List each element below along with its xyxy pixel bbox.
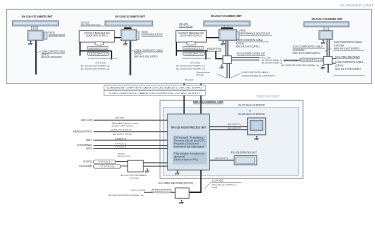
wire junction SU3 out 2 <box>232 59 260 61</box>
svg-text:LMR TRBL: LMR TRBL <box>115 118 125 120</box>
LCD monitor screen <box>250 120 263 130</box>
leader cable text SU2 <box>131 50 134 51</box>
wire junction SU4 out 2 <box>332 62 336 64</box>
svg-text:Ground wire: Ground wire <box>196 71 211 74</box>
svg-text:AC 220/230V 50/60Hz, 1φ: AC 220/230V 50/60Hz, 1φ <box>262 62 283 65</box>
svg-text:inserted as standard: inserted as standard <box>174 146 206 149</box>
svg-text:OPTION: OPTION <box>129 178 139 180</box>
scanner housing SU1 <box>28 30 43 40</box>
svg-text:GPS/TB: GPS/TB <box>118 153 126 155</box>
svg-text:DPYC-1.5S10: DPYC-1.5S10 <box>261 57 272 59</box>
process unit note block 1 <box>173 136 207 149</box>
rotary joint stub SU2 <box>126 25 129 27</box>
scanner housing SU2 <box>121 29 136 40</box>
power cable process to rectifier <box>189 170 201 192</box>
svg-text:ARC LUM: ARC LUM <box>81 119 92 122</box>
svg-text:(CP3-6): (CP3-6) <box>134 53 142 55</box>
svg-text:Process Circuit and DSC: Process Circuit and DSC <box>174 140 206 143</box>
cable A scanner to display <box>183 84 184 115</box>
wire GYRO <box>94 161 128 163</box>
svg-text:Of-board Tracking: Of-board Tracking <box>174 138 205 140</box>
svg-text:DPYC-1.5S10: DPYC-1.5S10 <box>190 62 201 64</box>
performance monitor PM SU3 <box>236 32 239 40</box>
rectifier box <box>175 188 189 198</box>
display unit enclosure <box>160 100 303 178</box>
cable tag 1 SU3 <box>183 46 204 49</box>
svg-text:optional.: optional. <box>174 156 187 159</box>
wire gyro interface out 2 <box>143 165 167 167</box>
wire USB to operation unit <box>210 159 235 161</box>
svg-text:AC 100/110-115V 50/60Hz, 1φ: AC 100/110-115V 50/60Hz, 1φ <box>176 64 205 67</box>
svg-text:0.6/1kV-DPYC-1.5: 0.6/1kV-DPYC-1.5 <box>184 48 202 50</box>
ground gyro interface <box>145 169 149 173</box>
svg-text:ANT SUPPLY OPTION: ANT SUPPLY OPTION <box>118 155 130 158</box>
power control junction box SU3 <box>223 56 232 64</box>
leader cable text SU1 <box>37 51 41 53</box>
svg-text:0.6/1kV-DPYC-1.5: 0.6/1kV-DPYC-1.5 <box>89 48 107 50</box>
wire breaker left drop SU2 <box>79 42 81 56</box>
cable B scanner to display <box>200 84 201 115</box>
svg-text:AD-100 GYRO INTERFACE: AD-100 GYRO INTERFACE <box>121 174 148 177</box>
ground SU3 housing <box>221 42 225 46</box>
antenna radiator SU3 <box>204 21 250 26</box>
ground process unit <box>175 171 179 175</box>
cable label box 2 <box>104 91 205 96</box>
svg-text:S-2M COMPOSITE CABLE 5/10/15/2: S-2M COMPOSITE CABLE 5/10/15/20M-100 ×2C… <box>109 92 202 95</box>
svg-text:(USB OUTPUT 1): (USB OUTPUT 1) <box>215 158 229 160</box>
cable tag rectifier <box>152 189 171 193</box>
scanner housing SU4 <box>319 31 333 40</box>
svg-text:MAX 4/4.5 ANT SUPPLY: MAX 4/4.5 ANT SUPPLY <box>236 45 260 48</box>
radar process unit <box>168 114 210 170</box>
ground monitor <box>255 136 259 140</box>
leader PM SU1 <box>49 35 66 37</box>
wire breaker to housing SU3 <box>206 37 219 39</box>
wire junction SU3 out 1 <box>232 56 260 58</box>
svg-text:DPYC-1.5: DPYC-1.5 <box>209 49 220 51</box>
wire mains to rectifier <box>144 191 175 193</box>
cable tag 2 SU3 <box>183 52 205 55</box>
svg-text:AC 220/230-240V 50/60Hz, 1φ: AC 220/230-240V 50/60Hz, 1φ <box>176 68 205 71</box>
svg-text:PM-50: PM-50 <box>240 31 247 33</box>
wire gyro interface out 1 <box>143 162 167 164</box>
svg-text:(DVI OUTPUT 1): (DVI OUTPUT 1) <box>228 124 241 126</box>
wire breaker to mains SU2 <box>80 51 112 60</box>
performance monitor PM SU1 <box>44 32 47 39</box>
cable slash SU4 <box>325 48 331 51</box>
svg-text:NET: NET <box>86 139 93 142</box>
wire breaker left drop SU3 <box>175 42 177 56</box>
ground SU4 housing <box>321 40 325 44</box>
cable tag SU4 <box>300 58 323 61</box>
antenna radiator SU2 <box>105 21 153 26</box>
wire HEADING TB <box>94 131 168 133</box>
svg-text:MAX 4/4.5-15M SUPPLY: MAX 4/4.5-15M SUPPLY <box>134 55 158 58</box>
svg-text:DPYC-1.5S10: DPYC-1.5S10 <box>95 62 106 64</box>
svg-text:DPYC-1.5S10: DPYC-1.5S10 <box>284 61 299 63</box>
svg-text:(DOCKYARD SUPPLY): (DOCKYARD SUPPLY) <box>180 34 202 37</box>
wire GPS <box>94 148 168 150</box>
svg-text:2/2006-TTYCS W/T 0.5: 2/2006-TTYCS W/T 0.5 <box>111 130 133 132</box>
rotary joint stub b SU1 <box>35 26 38 30</box>
svg-text:TTYCS-1: TTYCS-1 <box>115 147 127 149</box>
ground SU3 junction <box>220 65 224 69</box>
cable tag 2 SU2 <box>87 52 109 55</box>
ground SU4 junction <box>321 66 325 70</box>
svg-text:S-2M COMPOSITE CABLE: S-2M COMPOSITE CABLE <box>241 71 269 74</box>
svg-text:PERFORMANCE MONITOR ANT.: PERFORMANCE MONITOR ANT. <box>240 33 271 36</box>
svg-text:MAX 4/4.5 TUB SUPPLY: MAX 4/4.5 TUB SUPPLY <box>335 68 362 71</box>
svg-text:100BASE-TX: 100BASE-TX <box>115 137 127 140</box>
svg-text:TTYCS-1Q: TTYCS-1Q <box>100 166 115 168</box>
operation unit keyboard <box>236 157 255 164</box>
wire LOG COMP <box>94 165 128 167</box>
cable SU1 composite <box>35 41 37 75</box>
svg-text:MU-170 15inch LCD MONITOR: MU-170 15inch LCD MONITOR <box>238 105 265 107</box>
svg-text:XN-12A/6 SCANNER UNIT: XN-12A/6 SCANNER UNIT <box>115 15 145 18</box>
svg-text:(DVI OUTPUT 2): (DVI OUTPUT 2) <box>228 128 241 130</box>
svg-text:XN-24AF SCANNER UNIT: XN-24AF SCANNER UNIT <box>211 15 243 18</box>
svg-text:GPS: GPS <box>86 147 92 150</box>
cable SU2 composite <box>130 41 132 76</box>
svg-text:AC 100/110-115V 50/60Hz, 1φ: AC 100/110-115V 50/60Hz, 1φ <box>81 64 110 67</box>
performance monitor PM SU2 <box>136 32 139 40</box>
svg-text:AC 220/230-240V 50/60Hz, 1φ: AC 220/230-240V 50/60Hz, 1φ <box>81 68 110 71</box>
svg-text:prepare OFF switch): prepare OFF switch) <box>112 124 133 127</box>
breaker fuse SU3 <box>187 42 196 45</box>
svg-text:XN-24AF-2 SCANNER UNIT: XN-24AF-2 SCANNER UNIT <box>312 18 343 21</box>
svg-text:LOG/COMP: LOG/COMP <box>79 165 92 168</box>
wire LOG NMEA <box>94 144 168 146</box>
ground SU1 housing <box>28 41 32 45</box>
gyro interface box <box>128 160 144 172</box>
svg-text:12-24 VDC: 12-24 VDC <box>212 181 224 183</box>
cable SU4 down to junction <box>326 39 329 56</box>
cable label box 1 <box>104 85 205 90</box>
svg-text:0.6/1kV-DPYC-1.5: 0.6/1kV-DPYC-1.5 <box>89 54 107 56</box>
support SU4 <box>324 27 329 31</box>
leader cable type SU2 <box>88 57 117 59</box>
ground SU2 housing <box>123 42 127 46</box>
display inner enclosure <box>164 107 299 175</box>
svg-text:or: or <box>249 111 251 113</box>
svg-text:(CP3-5): (CP3-5) <box>42 54 49 56</box>
cable housing to junction SU3 <box>224 41 227 56</box>
svg-text:GYRO: GYRO <box>83 161 92 164</box>
svg-text:MAX 4/4.5-10M SUPPLY: MAX 4/4.5-10M SUPPLY <box>42 56 63 59</box>
motor cap SU2 <box>124 27 132 29</box>
cable tag LOG COMP <box>94 165 121 169</box>
wire mains to junction SU4 <box>284 59 324 61</box>
svg-text:# 4/4.5-5M: # 4/4.5-5M <box>334 45 344 47</box>
svg-text:Process Circuit are: Process Circuit are <box>174 143 200 146</box>
scanner unit enclosure <box>7 9 372 83</box>
svg-text:NJ-103: NJ-103 <box>185 80 194 82</box>
svg-text:XN-12A/4 SCANNER UNIT: XN-12A/4 SCANNER UNIT <box>22 15 53 18</box>
leader PM SU3 <box>239 35 272 37</box>
svg-text:HEADING/TRIG: HEADING/TRIG <box>73 131 92 134</box>
wire NET <box>94 139 168 141</box>
leader PM SU2 <box>142 35 163 37</box>
svg-text:S-2M COMPOSITE CABLE: S-2M COMPOSITE CABLE <box>335 61 364 64</box>
svg-text:S-2M/5M/10M MAX 4/4.5 (2M) SUP: S-2M/5M/10M MAX 4/4.5 (2M) SUPPLY <box>241 74 275 77</box>
svg-text:AC 100/110/115/220/230V 50/60H: AC 100/110/115/220/230V 50/60Hz, 1φ <box>281 64 319 67</box>
antenna radiator SU4 <box>304 22 349 27</box>
wire breaker to mains and junction SU3 <box>176 51 223 60</box>
svg-text:0.6/1kV-DPYC-1.5: 0.6/1kV-DPYC-1.5 <box>185 54 203 56</box>
svg-text:(Need a licence P/N): (Need a licence P/N) <box>174 160 198 162</box>
svg-text:RU-1746B-2 RECTIFIER (OPTION): RU-1746B-2 RECTIFIER (OPTION) <box>159 183 194 185</box>
svg-text:(10/15/20/30M): (10/15/20/30M) <box>293 50 305 52</box>
scanner housing SU3 <box>219 29 237 40</box>
wire breaker to housing SU2 <box>114 37 121 39</box>
rotary joint stub SU3 <box>225 25 228 27</box>
process unit note block 2 <box>173 152 207 165</box>
svg-text:S-2M/5M/10M COMPOSITE CABLE (C: S-2M/5M/10M COMPOSITE CABLE (CP3-4/5) MA… <box>107 86 204 89</box>
svg-text:(DOCKYARD SUPPLY): (DOCKYARD SUPPLY) <box>86 34 108 37</box>
svg-text:SCANNER UNIT: SCANNER UNIT <box>340 3 375 7</box>
leader SU3 cable left <box>217 74 227 79</box>
svg-text:AC 100/110/220/230V 50/60Hz, 1: AC 100/110/220/230V 50/60Hz, 1φ <box>109 194 144 197</box>
svg-text:(CP3-4): (CP3-4) <box>236 43 244 45</box>
svg-text:MAX 4/4.5 ANT SUPPLY: MAX 4/4.5 ANT SUPPLY <box>334 48 361 51</box>
svg-text:RCU-030 OPERATION UNIT: RCU-030 OPERATION UNIT <box>231 151 257 154</box>
cable tag GYRO <box>94 160 116 164</box>
operation unit box <box>234 156 257 165</box>
svg-text:DISPLAY UNIT: DISPLAY UNIT <box>257 94 281 98</box>
leader SU3 cable right <box>230 74 241 79</box>
breaker fuse SU2 <box>95 42 104 45</box>
contact breaker box SU2 <box>79 31 114 42</box>
svg-text:MU-190 19inch LCD MONITOR: MU-190 19inch LCD MONITOR <box>238 114 265 116</box>
svg-text:DPYC-2.5S10: DPYC-2.5S10 <box>131 190 146 192</box>
svg-text:(CP3-4): (CP3-4) <box>335 66 343 68</box>
svg-text:When AC-DC SUPPLY is: When AC-DC SUPPLY is <box>212 184 237 187</box>
cable junction SU3 down <box>226 63 229 78</box>
svg-text:TTYCS-1: TTYCS-1 <box>115 144 127 146</box>
svg-text:0.6/1kV-DPYC-1.5: 0.6/1kV-DPYC-1.5 <box>302 59 322 61</box>
svg-text:ANT SUPPLY OPTION: ANT SUPPLY OPTION <box>113 133 132 136</box>
svg-text:TTYCS-4: TTYCS-4 <box>99 162 112 164</box>
ground rectifier <box>179 200 183 204</box>
rotary joint stub a SU1 <box>31 26 34 30</box>
svg-text:S-2M COMPOSITE CABLE: S-2M COMPOSITE CABLE <box>334 41 363 44</box>
svg-text:0.6/1kV-DPYC-2.5: 0.6/1kV-DPYC-2.5 <box>153 191 170 193</box>
svg-text:IV-8sq.: IV-8sq. <box>196 75 204 77</box>
contact breaker box SU3 <box>176 31 206 42</box>
svg-text:The plotter function is: The plotter function is <box>174 153 206 156</box>
svg-text:MAX 4/4.5-100M SUPPLY: MAX 4/4.5-100M SUPPLY <box>293 52 322 55</box>
motor cap SU3 <box>221 27 233 29</box>
leader cable type SU3 <box>182 57 211 59</box>
wire junction SU4 out 1 <box>332 57 336 59</box>
wire DVI 2 <box>210 129 248 131</box>
LCD monitor <box>248 118 266 135</box>
wire DVI 1 <box>210 126 248 128</box>
vdc note leader <box>204 182 242 188</box>
wire ARC LUM <box>94 119 168 121</box>
svg-text:RPU-025 RADAR PROCESS UNIT: RPU-025 RADAR PROCESS UNIT <box>171 127 207 130</box>
cable junction SU4 down <box>328 64 329 72</box>
junction box SU4 <box>323 57 332 65</box>
cable tag 1 SU2 <box>87 46 108 49</box>
antenna radiator SU1 <box>13 21 59 26</box>
cable tag 3 SU3 <box>207 48 221 51</box>
